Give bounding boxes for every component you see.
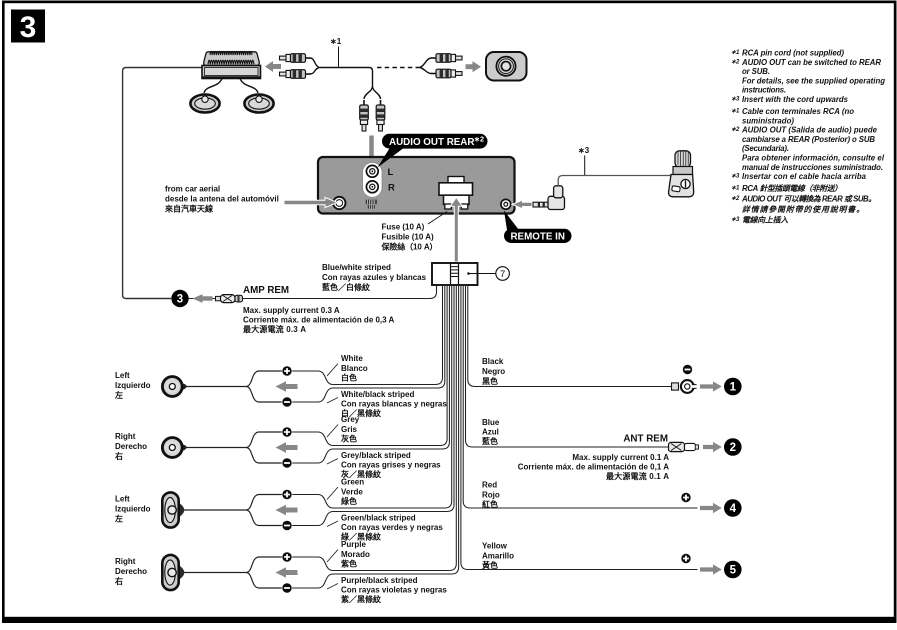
- wire bundle: green: [292, 285, 452, 508]
- node circled 7: [496, 267, 510, 281]
- labels black wire: [482, 357, 505, 386]
- svg-text:Izquierdo: Izquierdo: [115, 505, 151, 514]
- fuse holder: [439, 177, 473, 210]
- svg-text:Black: Black: [482, 357, 504, 366]
- subwoofer box: [486, 52, 527, 81]
- wire bundle: blue: [466, 285, 670, 447]
- leader to circled 7: [467, 272, 470, 275]
- svg-text:Blue: Blue: [482, 418, 500, 427]
- svg-text:Para obtener información, cons: Para obtener información, consulte el: [742, 154, 885, 163]
- plus symbol row 3: [282, 490, 291, 499]
- arrow from car aerial into antenna jack: [284, 197, 338, 207]
- svg-text:RCA pin cord (not supplied): RCA pin cord (not supplied): [742, 49, 844, 58]
- svg-text:∗1: ∗1: [731, 186, 740, 192]
- svg-text:∗1: ∗1: [731, 50, 740, 56]
- label max supply 0.3A: [243, 306, 395, 334]
- minus symbol black: [683, 365, 692, 374]
- labels row 4 wires: [341, 540, 447, 604]
- svg-text:Corriente máx. de alimentación: Corriente máx. de alimentación de 0,3 A: [243, 316, 395, 325]
- callout AUDIO OUT REAR*2: [378, 134, 488, 168]
- svg-text:∗3: ∗3: [731, 217, 740, 223]
- svg-text:最大源電流 0.3 A: 最大源電流 0.3 A: [243, 324, 306, 334]
- arrow into remote-in jack: [512, 200, 532, 209]
- leaders row 3: [327, 487, 338, 527]
- RCA pin cord: down plug L: [360, 100, 369, 131]
- label max supply 0.1A: [518, 453, 670, 481]
- svg-text:∗2: ∗2: [731, 127, 740, 133]
- node 2 circled: [724, 438, 742, 456]
- svg-text:Right: Right: [115, 432, 136, 441]
- ROW 1 front left speaker: [114, 371, 151, 400]
- svg-text:Con rayas verdes y negras: Con rayas verdes y negras: [341, 523, 443, 532]
- svg-text:綠色: 綠色: [341, 496, 357, 506]
- wire blue/white striped (AMP REM): [216, 285, 437, 299]
- AMP REM pin terminal: [216, 295, 243, 303]
- svg-text:RCA 針型插頭電線（非附送）: RCA 針型插頭電線（非附送）: [742, 184, 842, 193]
- arrow row 1: [276, 381, 298, 392]
- labels row 3 wires: [341, 478, 443, 542]
- svg-text:右: 右: [114, 451, 123, 461]
- svg-text:黑色: 黑色: [482, 376, 498, 386]
- svg-text:3: 3: [177, 294, 183, 306]
- svg-text:Con rayas blancas y negras: Con rayas blancas y negras: [341, 400, 447, 409]
- audio out jack R: [366, 181, 378, 193]
- svg-text:Purple: Purple: [341, 540, 366, 549]
- node 4 circled: [724, 499, 742, 517]
- svg-text:Morado: Morado: [341, 550, 370, 559]
- wire bundle: grey/black striped: [292, 285, 449, 463]
- svg-text:Rojo: Rojo: [482, 491, 500, 500]
- plus symbol row 2: [282, 427, 291, 436]
- wire bundle: black: [468, 285, 672, 387]
- notes column chinese: [731, 184, 876, 225]
- svg-text:Max. supply current 0.1 A: Max. supply current 0.1 A: [572, 453, 669, 462]
- RCA pin cord: right plug R: [431, 69, 462, 78]
- svg-text:紫／黑條紋: 紫／黑條紋: [341, 594, 381, 604]
- step number 3 badge: [11, 10, 45, 45]
- svg-text:Gris: Gris: [341, 425, 358, 434]
- wire bundle: red: [463, 285, 697, 508]
- minus symbol row 2: [282, 458, 291, 467]
- wire bundle: green/black striped: [292, 285, 454, 526]
- svg-text:AUDIO OUT 可以轉換為 REAR 或 SUB。: AUDIO OUT 可以轉換為 REAR 或 SUB。: [741, 195, 876, 204]
- svg-text:REMOTE IN: REMOTE IN: [510, 232, 564, 243]
- svg-text:White: White: [341, 354, 363, 363]
- svg-text:Grey/black striped: Grey/black striped: [341, 451, 411, 460]
- svg-text:右: 右: [114, 576, 123, 586]
- ring terminal on black wire: [672, 380, 698, 393]
- wire from amplifier to AMP REM lead: [123, 68, 202, 299]
- svg-text:R: R: [388, 183, 395, 194]
- speaker rear-right: [162, 555, 184, 590]
- svg-text:5: 5: [730, 565, 737, 577]
- ROW 3 rear left speaker: [114, 495, 151, 524]
- svg-text:∗3: ∗3: [731, 97, 740, 103]
- svg-text:Fuse (10 A): Fuse (10 A): [382, 223, 425, 232]
- notes column spanish: [731, 107, 885, 181]
- wire dashed extension: [377, 67, 419, 69]
- svg-text:Yellow: Yellow: [482, 542, 508, 551]
- svg-text:∗2: ∗2: [731, 59, 740, 65]
- svg-text:∗2: ∗2: [731, 196, 740, 202]
- svg-text:desde la antena del automóvil: desde la antena del automóvil: [165, 195, 279, 204]
- svg-text:For details, see the supplied: For details, see the supplied operating: [742, 76, 885, 85]
- tick for *1: [338, 47, 340, 67]
- labels blue wire: [482, 418, 500, 446]
- svg-text:Purple/black striped: Purple/black striped: [341, 576, 418, 585]
- svg-text:(Secundaria).: (Secundaria).: [742, 144, 789, 153]
- remote-in jack: [501, 199, 511, 209]
- wire bundle: white/black striped: [292, 285, 445, 402]
- svg-text:L: L: [388, 167, 394, 178]
- plus symbol row 4: [282, 552, 291, 561]
- svg-text:Green: Green: [341, 478, 364, 487]
- svg-text:2: 2: [730, 442, 736, 454]
- 3.5mm plug tip: [533, 202, 549, 207]
- svg-text:藍色: 藍色: [482, 436, 498, 446]
- wire speaker to fork: [184, 386, 246, 388]
- RCA pin cord: right plug L: [431, 54, 462, 63]
- wire bundle: yellow: [461, 285, 698, 570]
- 3.5mm right-angle plug body: [548, 186, 565, 210]
- wire bundle: purple/black striped: [292, 285, 458, 588]
- wire bundle: grey: [292, 285, 447, 446]
- svg-text:7: 7: [500, 269, 505, 280]
- tick for *3: [584, 156, 586, 176]
- label blue/white striped: [322, 263, 427, 292]
- svg-text:AMP REM: AMP REM: [243, 285, 289, 296]
- svg-text:∗2: ∗2: [474, 135, 484, 144]
- ANT REM extension terminal: [669, 442, 699, 451]
- node 3 circled: [171, 290, 188, 307]
- label Fuse (10 A): [381, 223, 438, 252]
- arrow yellow: [700, 564, 722, 574]
- antenna jack: [333, 197, 345, 209]
- svg-text:Insert with the cord upwards: Insert with the cord upwards: [742, 95, 849, 104]
- svg-text:manual de instrucciones sumini: manual de instrucciones suministrado.: [742, 163, 883, 172]
- svg-text:左: 左: [114, 514, 123, 524]
- RCA pin cord: down plug R: [376, 100, 385, 131]
- wire bundle: purple: [292, 285, 456, 571]
- leaders row 4: [327, 550, 338, 590]
- svg-text:詳情請參閱附帶的使用說明書。: 詳情請參閱附帶的使用說明書。: [742, 205, 864, 214]
- left speaker of amplifier: [190, 95, 219, 113]
- svg-text:Derecho: Derecho: [115, 442, 147, 451]
- head unit rear panel: [318, 157, 515, 214]
- arrow into amplifier: [265, 61, 281, 72]
- svg-text:Derecho: Derecho: [115, 567, 147, 576]
- svg-text:電線向上插入: 電線向上插入: [742, 216, 788, 225]
- arrow up into fuse: [450, 197, 462, 262]
- svg-text:Amarillo: Amarillo: [482, 552, 514, 561]
- plus symbol row 1: [282, 366, 291, 375]
- label from car aerial: [164, 185, 279, 214]
- labels row 2 wires: [341, 415, 441, 479]
- svg-text:藍色／白條紋: 藍色／白條紋: [322, 282, 370, 292]
- audio out jack L: [366, 165, 378, 177]
- svg-text:3: 3: [20, 11, 37, 44]
- svg-text:Left: Left: [115, 371, 130, 380]
- svg-text:灰色: 灰色: [341, 434, 357, 444]
- audio out jack bezel: [363, 163, 382, 198]
- wire fork down to rear-out plugs: [364, 86, 381, 99]
- RCA pin cord: left plug R: [280, 70, 311, 79]
- svg-text:來自汽車天線: 來自汽車天線: [164, 204, 213, 214]
- fork row 1: [246, 371, 282, 402]
- labels yellow wire: [482, 542, 514, 571]
- ROW 2 front right speaker: [114, 432, 147, 461]
- ROW 4 rear right speaker: [114, 557, 147, 586]
- svg-text:Verde: Verde: [341, 488, 363, 497]
- svg-text:Con rayas grises y negras: Con rayas grises y negras: [341, 461, 441, 470]
- svg-text:AUDIO OUT REAR: AUDIO OUT REAR: [389, 137, 474, 148]
- arrow to subwoofer: [466, 61, 482, 72]
- node 5 circled: [724, 561, 742, 579]
- fork row 3: [246, 495, 282, 526]
- arrow blue: [703, 442, 722, 452]
- svg-text:Blue/white striped: Blue/white striped: [322, 263, 391, 272]
- svg-text:∗1: ∗1: [330, 37, 342, 46]
- plus symbol red: [681, 493, 690, 502]
- svg-text:Grey: Grey: [341, 415, 360, 424]
- svg-text:White/black striped: White/black striped: [341, 390, 414, 399]
- svg-text:instructions.: instructions.: [742, 86, 786, 95]
- arrow down into AUDIO OUT jacks: [365, 135, 379, 166]
- svg-text:Con rayas violetas y negras: Con rayas violetas y negras: [341, 586, 447, 595]
- leader fuse label: [428, 212, 447, 225]
- svg-text:紫色: 紫色: [341, 559, 357, 569]
- callout REMOTE IN: [504, 211, 572, 244]
- svg-text:Blanco: Blanco: [341, 364, 368, 373]
- svg-text:1: 1: [730, 382, 737, 394]
- svg-text:Cable con terminales RCA (no: Cable con terminales RCA (no: [742, 107, 854, 116]
- wire RCA cord main run: [318, 68, 373, 87]
- arrow row 3: [276, 505, 298, 516]
- svg-text:Negro: Negro: [482, 367, 505, 376]
- svg-text:Green/black striped: Green/black striped: [341, 514, 416, 523]
- rear-out icon: [366, 200, 377, 209]
- svg-text:cambiarse a REAR (Posterior) o: cambiarse a REAR (Posterior) o SUB: [742, 135, 875, 144]
- rotary commander device: [669, 151, 694, 197]
- RCA pin cord: left plug L: [280, 54, 311, 63]
- svg-text:Fusible (10 A): Fusible (10 A): [382, 233, 434, 242]
- wire speaker to fork: [183, 509, 246, 511]
- leaders row 1: [327, 364, 338, 404]
- svg-text:AUDIO OUT (Salida de audio) pu: AUDIO OUT (Salida de audio) puede: [741, 126, 878, 135]
- arrow red: [700, 503, 722, 513]
- arrow row 4: [276, 567, 298, 578]
- notes column english: [731, 49, 885, 105]
- svg-text:左: 左: [114, 390, 123, 400]
- svg-text:Right: Right: [115, 557, 136, 566]
- svg-text:白色: 白色: [341, 373, 357, 383]
- wire speaker to fork: [184, 447, 246, 449]
- svg-text:Corriente máx. de alimentación: Corriente máx. de alimentación de 0,1 A: [518, 463, 670, 472]
- svg-text:保險絲（10 A）: 保險絲（10 A）: [381, 242, 438, 252]
- wire Y-junction left: [310, 58, 319, 74]
- svg-text:Con rayas azules y blancas: Con rayas azules y blancas: [322, 273, 427, 282]
- fork row 4: [246, 557, 282, 588]
- minus symbol row 3: [282, 521, 291, 530]
- wire amp to left speaker: [204, 79, 222, 94]
- wire amp to right speaker: [240, 79, 258, 94]
- svg-text:∗3: ∗3: [578, 146, 590, 155]
- svg-text:Max. supply current 0.3 A: Max. supply current 0.3 A: [243, 306, 340, 315]
- speaker front-left: [162, 377, 186, 397]
- svg-text:Izquierdo: Izquierdo: [115, 381, 151, 390]
- arrow row 2: [276, 442, 298, 453]
- node 1 circled: [724, 378, 742, 396]
- svg-text:Azul: Azul: [482, 428, 499, 437]
- arrow at AMP REM lead: [189, 298, 216, 300]
- wire speaker to fork: [183, 572, 246, 574]
- svg-text:suministrado): suministrado): [742, 116, 794, 125]
- speaker rear-left: [162, 492, 184, 527]
- svg-text:ANT REM: ANT REM: [623, 434, 668, 445]
- svg-text:Left: Left: [115, 495, 130, 504]
- svg-text:∗1: ∗1: [731, 109, 740, 115]
- harness connector 7: [432, 263, 478, 285]
- wire remote cable: [558, 176, 670, 187]
- svg-text:4: 4: [730, 503, 737, 515]
- svg-text:黃色: 黃色: [482, 560, 498, 570]
- labels red wire: [482, 481, 500, 510]
- svg-text:最大源電流 0.1 A: 最大源電流 0.1 A: [606, 471, 669, 481]
- plus symbol yellow: [681, 554, 690, 563]
- leaders row 2: [327, 425, 338, 465]
- svg-text:∗3: ∗3: [731, 174, 740, 180]
- svg-text:Red: Red: [482, 481, 497, 490]
- labels row 1 wires: [341, 354, 447, 418]
- svg-text:Insertar con el cable hacia ar: Insertar con el cable hacia arriba: [742, 172, 867, 181]
- amplifier power amp unit: [202, 51, 261, 78]
- wire bundle: white: [292, 285, 442, 385]
- svg-text:紅色: 紅色: [482, 499, 498, 509]
- arrow black: [700, 381, 722, 391]
- speaker front-right: [162, 438, 186, 458]
- wire Y-junction right: [419, 58, 431, 74]
- fork row 2: [246, 432, 282, 463]
- svg-text:or SUB.: or SUB.: [742, 67, 770, 76]
- svg-text:from car aerial: from car aerial: [165, 185, 220, 194]
- svg-text:AUDIO OUT can be switched to R: AUDIO OUT can be switched to REAR: [741, 58, 881, 67]
- right speaker of amplifier: [244, 95, 273, 113]
- minus symbol row 4: [282, 583, 291, 592]
- minus symbol row 1: [282, 397, 291, 406]
